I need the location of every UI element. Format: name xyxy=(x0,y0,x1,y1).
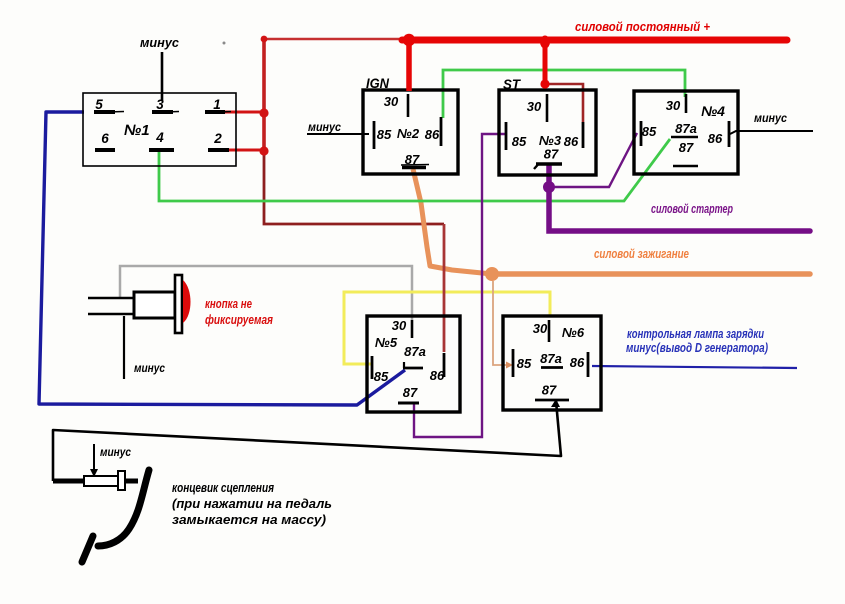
svg-text:86: 86 xyxy=(425,127,440,142)
svg-text:87a: 87a xyxy=(404,344,426,359)
wire purple thin: starter node to N4 85 xyxy=(552,133,637,187)
svg-text:№5: №5 xyxy=(375,335,398,350)
svg-text:фиксируемая: фиксируемая xyxy=(205,313,274,327)
svg-text:85: 85 xyxy=(517,356,532,371)
svg-text:№6: №6 xyxy=(562,325,585,340)
minus lead from button xyxy=(123,316,125,379)
wire blue: connector pin 5 to N5 87a xyxy=(39,112,405,405)
svg-text:ST: ST xyxy=(503,76,521,92)
svg-text:концевик сцепления: концевик сцепления xyxy=(172,481,275,495)
svg-text:86: 86 xyxy=(564,134,579,149)
minus lead to pin 3 xyxy=(161,52,164,101)
wire maroon: connector pins 1,2 to relay N5 86 (upper run) xyxy=(225,39,444,224)
svg-text:85: 85 xyxy=(512,134,527,149)
svg-text:30: 30 xyxy=(533,321,548,336)
node: starter junction dot xyxy=(543,181,555,193)
svg-text:замыкается на массу): замыкается на массу) xyxy=(172,513,326,527)
minus lead from N4 86 xyxy=(730,131,813,134)
wire orange: ignition power bus (horizontal) xyxy=(492,271,810,277)
wire red: bus to IGN 30 xyxy=(406,40,412,91)
svg-text:№4: №4 xyxy=(701,103,725,119)
relay U6 box xyxy=(503,316,601,410)
wire dark red: bus junction to ST pin 86 xyxy=(545,84,583,122)
wire maroon: drop into N5 pin 86 xyxy=(443,224,446,352)
connector X1 body xyxy=(83,93,236,166)
svg-text:минус: минус xyxy=(134,361,165,375)
power bus red xyxy=(402,37,787,44)
svg-text:85: 85 xyxy=(642,124,657,139)
svg-text:(при нажатии на педаль: (при нажатии на педаль xyxy=(172,497,332,511)
wire red: bus to ST 30 xyxy=(543,40,548,88)
svg-text:6: 6 xyxy=(101,131,109,146)
svg-text:силовой стартер: силовой стартер xyxy=(651,202,733,216)
node: ignition bus dot xyxy=(485,267,499,281)
svg-text:минус: минус xyxy=(308,120,341,134)
minus arrow label xyxy=(93,444,95,471)
wire yellow: N6 pin 30 to N5 pin 85 xyxy=(344,292,550,364)
svg-text:минус: минус xyxy=(100,445,131,459)
relay U4 box xyxy=(634,91,738,174)
svg-text:85: 85 xyxy=(377,127,392,142)
node: bus bulge at ST xyxy=(540,36,550,49)
svg-text:1: 1 xyxy=(213,97,221,112)
relay U5 box xyxy=(367,316,460,412)
svg-text:87: 87 xyxy=(679,140,694,155)
clutch pedal arm xyxy=(98,470,149,546)
svg-text:87: 87 xyxy=(542,383,557,398)
svg-text:№1: №1 xyxy=(124,122,150,139)
svg-text:87: 87 xyxy=(544,147,559,162)
wire black: N6 87 to clutch switch ground xyxy=(53,401,561,481)
svg-text:30: 30 xyxy=(384,94,399,109)
wire purple: ST 85 to N5 87 xyxy=(414,134,505,437)
wire orange thin: bus to N6 pin 85 xyxy=(493,281,508,365)
svg-text:85: 85 xyxy=(374,369,389,384)
svg-text:минус: минус xyxy=(140,36,179,50)
svg-text:30: 30 xyxy=(392,318,407,333)
wire orange: IGN 87 down to ignition bus corner (diagonal part) xyxy=(413,169,492,274)
svg-text:минус(вывод D генератора): минус(вывод D генератора) xyxy=(626,341,768,355)
wire blue: N6 86 to charge lamp xyxy=(592,366,797,368)
node: junction dots on connector feed xyxy=(261,36,268,43)
svg-text:87a: 87a xyxy=(675,121,697,136)
minus lead to IGN 85 xyxy=(307,133,369,135)
svg-text:силовой зажигание: силовой зажигание xyxy=(594,247,689,261)
push button SW1 xyxy=(88,297,134,300)
wire purple thick: ST 87 starter power xyxy=(549,166,810,231)
ground: clutch switch minus connector xyxy=(53,479,84,484)
svg-text:4: 4 xyxy=(155,130,164,145)
wire green: connector pin 4 to N4 87a xyxy=(159,139,670,201)
svg-text:силовой постоянный +: силовой постоянный + xyxy=(575,20,711,34)
button red cap xyxy=(183,280,191,323)
svg-text:2: 2 xyxy=(213,131,222,146)
svg-text:87a: 87a xyxy=(540,351,562,366)
speck artifact xyxy=(223,42,226,45)
svg-text:30: 30 xyxy=(527,99,542,114)
svg-text:минус: минус xyxy=(754,111,787,125)
svg-text:30: 30 xyxy=(666,98,681,113)
svg-text:87: 87 xyxy=(403,385,418,400)
svg-text:кнопка не: кнопка не xyxy=(205,297,252,311)
svg-text:№2: №2 xyxy=(397,126,420,141)
svg-text:86: 86 xyxy=(708,131,723,146)
svg-text:контрольная лампа зарядки: контрольная лампа зарядки xyxy=(627,327,764,341)
relay U3 ST box xyxy=(499,90,596,175)
svg-text:86: 86 xyxy=(570,355,585,370)
relay U2 IGN box xyxy=(363,90,458,174)
node: bus dot at IGN xyxy=(403,34,415,46)
svg-text:IGN: IGN xyxy=(366,75,390,91)
node: dot above ST xyxy=(540,79,549,88)
wire grey: button to relay N5 pin 30 xyxy=(120,266,412,320)
wire green: IGN 86 to N4 pin 30 xyxy=(443,70,685,118)
svg-text:5: 5 xyxy=(95,97,103,112)
